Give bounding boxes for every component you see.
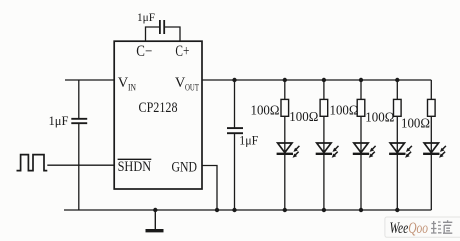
junction branch3 / VOUT rail — [359, 78, 363, 82]
wire: output cap branch lower — [234, 133, 236, 210]
wire: square wave to SHDN pin — [47, 164, 114, 166]
wire: C+ pin stub up — [165, 27, 180, 41]
capacitor C3 1uF (output, plates) — [227, 128, 243, 133]
svg-text:C−: C− — [136, 43, 152, 60]
svg-text:GND: GND — [172, 159, 198, 175]
svg-text:CP2128: CP2128 — [139, 100, 178, 116]
svg-text:OUT: OUT — [185, 83, 199, 93]
junction at output cap / VOUT rail — [232, 78, 236, 82]
wire: VIN input wire — [65, 79, 114, 81]
junction branch4 / VOUT rail — [395, 78, 399, 82]
junction branch2 / VOUT rail — [322, 78, 326, 82]
square wave source symbol — [17, 155, 48, 171]
resistor 100ohm #3 — [357, 99, 365, 116]
capacitor C1 1uF (input, plates) — [71, 119, 87, 123]
wire: GND pin stub right and down — [202, 166, 217, 211]
watermark box — [385, 217, 460, 237]
junction branch1 / VOUT rail — [283, 78, 287, 82]
svg-text:1μF: 1μF — [49, 113, 69, 128]
wire: VOUT rail — [202, 79, 431, 81]
LED #1 — [277, 143, 300, 158]
svg-text:100Ω: 100Ω — [330, 103, 359, 118]
junction branch3 / ground rail — [359, 208, 363, 212]
branch 4: wire — [396, 80, 398, 210]
svg-text:100Ω: 100Ω — [251, 103, 280, 118]
LED #5 — [423, 143, 446, 158]
svg-text:IN: IN — [128, 83, 136, 93]
resistor 100ohm #5 — [428, 99, 436, 116]
svg-text:1μF: 1μF — [239, 133, 258, 148]
branch 1: wire — [284, 80, 286, 210]
op-amp/IC U1 CP2128 box — [114, 41, 202, 189]
ground symbol — [146, 208, 164, 231]
wire: input cap branch lower (C1 to ground rail, crosses SHDN wire) — [78, 123, 80, 210]
branch 5: wire — [430, 80, 432, 210]
junction branch4 / ground rail — [395, 208, 399, 212]
svg-text:1μF: 1μF — [137, 10, 155, 24]
wire: ground rail — [64, 209, 431, 211]
svg-text:SHDN: SHDN — [118, 159, 152, 175]
watermark CJK glyphs (approx) — [431, 220, 452, 233]
pin label VOUT — [175, 75, 199, 93]
junction branch2 / ground rail — [322, 208, 326, 212]
svg-text:100Ω: 100Ω — [365, 110, 394, 125]
branch 3: wire — [360, 80, 362, 210]
resistor 100ohm #4 — [394, 99, 402, 116]
junction branch1 / ground rail — [283, 208, 287, 212]
svg-text:C+: C+ — [175, 43, 189, 60]
LED #4 — [389, 143, 412, 158]
resistor 100ohm #2 — [320, 99, 328, 116]
wire: output cap branch upper — [234, 80, 236, 128]
junction at output cap / ground rail — [232, 208, 236, 212]
wire: input cap branch upper (VIN to C1 top plate) — [78, 80, 80, 118]
pin label VIN — [118, 75, 137, 93]
pin label SHDN with overline — [118, 159, 152, 175]
LED #2 — [316, 143, 339, 158]
resistor 100ohm #1 — [281, 99, 289, 116]
svg-text:100Ω: 100Ω — [289, 110, 318, 125]
svg-text:WeeQoo: WeeQoo — [390, 220, 429, 237]
svg-text:100Ω: 100Ω — [401, 116, 430, 131]
LED #3 — [353, 143, 376, 158]
branch 2: wire — [323, 80, 325, 210]
capacitor C2 1uF flying cap (plates) — [160, 20, 164, 34]
wire: C- pin stub up — [146, 27, 160, 41]
junction at GND branch / ground rail — [215, 208, 219, 212]
